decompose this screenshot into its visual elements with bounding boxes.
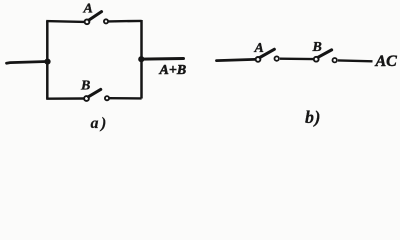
wire top-right segment <box>108 20 141 23</box>
svg-text:B: B <box>80 79 90 94</box>
svg-text:A+B: A+B <box>159 63 187 78</box>
svg-text:b): b) <box>305 107 321 128</box>
wire input left (circuit a) <box>7 62 48 64</box>
wire output right (circuit b) <box>338 59 373 62</box>
wire output right (circuit a) <box>141 57 183 61</box>
svg-text:A: A <box>83 1 93 16</box>
switch B contact (circuit b) <box>333 58 337 62</box>
wire input left (circuit b) <box>217 59 256 60</box>
switch B pivot <box>84 96 89 101</box>
switch A arm (circuit b) <box>260 49 274 57</box>
wire right vertical <box>140 20 143 99</box>
svg-text:a): a) <box>91 115 109 132</box>
switch A arm <box>89 12 102 20</box>
node junction right <box>138 56 144 62</box>
switch B pivot (circuit b) <box>314 57 319 62</box>
svg-text:A: A <box>254 41 264 56</box>
switch A contact (circuit b) <box>275 56 279 60</box>
switch A pivot <box>85 19 90 24</box>
wire bottom-right segment <box>110 97 142 100</box>
node junction left <box>44 59 50 65</box>
svg-text:B: B <box>312 40 322 55</box>
switch B arm <box>89 89 101 96</box>
wire middle segment (circuit b) <box>280 58 313 61</box>
svg-text:AC: AC <box>375 53 398 70</box>
wire left vertical <box>46 21 49 99</box>
switch A pivot (circuit b) <box>256 57 261 62</box>
wire bottom-left segment <box>46 97 84 100</box>
switch B contact <box>105 96 109 100</box>
wire top-left segment <box>46 20 84 23</box>
switch A contact <box>104 19 108 23</box>
switch B arm (circuit b) <box>318 50 331 57</box>
